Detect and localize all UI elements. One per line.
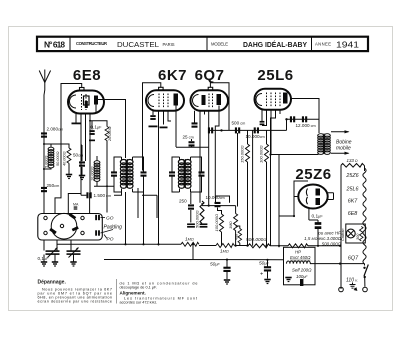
alignment text column [120,281,198,304]
wire: B+ line to output transformer [271,154,322,156]
chassis plate under diode load [200,223,208,227]
wire: 25L6 plate to output transformer [291,99,319,134]
svg-text:6Q7: 6Q7 [348,256,359,262]
capacitor 250cm on antenna lead [41,187,47,192]
diode detector line with caps 500cm [209,119,287,246]
main B- bus [57,244,315,246]
mains terminal left [339,287,344,292]
filter / speaker-field box [284,247,316,284]
svg-text:ANNEE: ANNEE [315,41,331,46]
resistor 1 Mohm (AF) [234,214,238,231]
AC plug symbol [350,283,357,291]
oscillator grid coil 10.000 [94,161,100,182]
svg-text:Cadran: Cadran [341,229,345,241]
svg-text:1MΩ: 1MΩ [228,221,233,229]
resistor 300 ohm (lamp shunt) [360,227,364,241]
text column divider [116,279,118,304]
capacitor across oscillator primary [111,171,117,176]
svg-text:écran desservie par une résist: écran desservie par une résistance [38,300,113,304]
gang wires and grounds [44,240,74,262]
ground below 50cm cap [79,176,85,180]
heater chain left wire [341,165,365,289]
triode-hexode tube 6E8 [68,88,104,114]
svg-text:500.000Ω: 500.000Ω [195,210,200,228]
svg-text:1941: 1941 [336,40,359,50]
svg-text:1,5 MΩ exc.3.000Ω: 1,5 MΩ exc.3.000Ω [304,236,341,241]
svg-text:Alignement.: Alignement. [120,291,146,296]
ground in filter box [285,278,291,282]
IF transformer MF1 [111,157,147,192]
resistor 100.000 ohm grid leak [220,214,224,232]
rectifier tube 25Z6 [298,185,327,209]
ground bar under 6E8 cathode [72,123,81,125]
capacitor 25cm feedback loop over MF2 [176,139,209,147]
svg-text:25L6: 25L6 [346,187,359,193]
capacitor 10.000cm (screen bypass) [254,127,259,133]
resistor 20.000 ohm (osc grid leak) [105,127,109,141]
band switch block [38,213,103,240]
svg-text:250: 250 [179,199,187,204]
svg-text:découplage de 0,1 μF.: découplage de 0,1 μF. [120,285,157,289]
trimmer PO with Padding label [95,230,100,235]
svg-text:Dépannage.: Dépannage. [38,280,67,286]
svg-text:0,1μF: 0,1μF [38,256,50,261]
wire: oscillator coil bottom rail [68,121,114,214]
wire: antenna lead down [43,83,46,214]
dial lamp Cadran [346,229,355,238]
wire 50cm cap [81,145,83,176]
wire: 6E8 plate to IF1 primary top [98,100,126,159]
resistor 1 Mohm on bus (second) [216,244,234,248]
6Q7 pins down [195,106,220,203]
resistor 50.000 ohm (antenna) [67,148,71,163]
6E8 pins down [76,105,107,162]
capacitor across oscillator secondary [141,171,147,176]
output transformer [318,134,330,155]
svg-text:100.000Ω: 100.000Ω [259,145,264,163]
svg-text:6E8: 6E8 [73,67,101,84]
svg-text:25Z6: 25Z6 [345,173,358,179]
antenna coil 5.000 [48,147,54,168]
svg-text:20.000Ω: 20.000Ω [108,126,112,142]
svg-text:mobile: mobile [336,146,351,152]
resistor 400 ohm (bias) [238,229,242,243]
svg-text:300: 300 [356,233,360,240]
svg-text:N° 618: N° 618 [44,39,65,49]
resistor 500.000 ohm (diode load) [200,201,204,224]
svg-text:10.000Ω: 10.000Ω [91,166,95,181]
antenna [39,70,50,83]
header title box [37,37,368,51]
svg-text:25Z6: 25Z6 [295,166,331,183]
ground bar under 6K7 [149,126,158,128]
svg-text:MA: MA [73,203,79,207]
tuning gang section 2 [67,248,81,258]
svg-text:CONSTRUCTEUR: CONSTRUCTEUR [76,41,107,46]
svg-text:ou avec HP: ou avec HP [318,231,341,236]
lower bus [104,244,365,265]
tuning gang section 1 [46,248,60,258]
25Z6 plate feed wires [279,155,309,248]
heater chain wavy cord [363,168,366,264]
wire antenna coil connections [43,144,69,175]
svg-text:6K7: 6K7 [348,199,359,205]
svg-text:150.000Ω: 150.000Ω [240,145,245,163]
ground below antenna resistor [66,175,72,179]
resistor 150.000 ohm (AVC divider) [247,130,249,144]
resistor 1 Mohm on bus [181,242,199,246]
svg-text:6Q7: 6Q7 [195,67,225,84]
capacitor on 6Q7 cathode [192,122,198,127]
wire: 6K7 grid-cap lead down to IF1 secondary [143,83,161,245]
svg-text:6K7: 6K7 [158,67,187,84]
capacitor pair 12.000cm (tone) [286,118,319,120]
svg-text:250cm: 250cm [47,183,60,188]
wires from oscillator transformer down to switch [114,188,157,244]
25L6 pins down [262,110,280,155]
resistor 100.000 ohm (screen feed) [266,130,268,144]
svg-text:6E8: 6E8 [348,211,358,217]
svg-text:400: 400 [234,234,238,240]
svg-text:25L6: 25L6 [257,67,293,84]
svg-text:12.000 cm: 12.000 cm [296,123,316,128]
capacitor 2.080cm on antenna lead [41,132,47,137]
6K7 pins down [153,106,176,246]
IF transformer MF2 [169,157,205,192]
svg-text:GO: GO [106,216,114,222]
wire: 6E8 grid-cap lead to antenna coil [55,84,82,214]
svg-text:133 Ω: 133 Ω [347,158,358,163]
svg-text:40.000Ω: 40.000Ω [63,151,67,166]
resistor 500.000 ohm on bus [248,244,270,248]
svg-text:100μF: 100μF [296,274,308,279]
capacitor 1.500cm (padder) [86,192,91,198]
volume potentiometer network [202,147,236,213]
svg-text:Exct 450Ω: Exct 450Ω [290,255,311,260]
svg-text:accordés sur 472 kHz.: accordés sur 472 kHz. [120,301,158,305]
svg-text:HP: HP [295,250,301,255]
svg-text:PO: PO [107,237,114,243]
dial lamp box [346,224,366,243]
svg-text:Self 200Ω: Self 200Ω [292,268,312,273]
svg-text:500 cm: 500 cm [232,121,246,126]
svg-text:500.000Ω: 500.000Ω [246,237,266,243]
svg-text:DUCASTEL: DUCASTEL [117,40,159,49]
svg-text:100.000Ω: 100.000Ω [214,214,219,232]
svg-text:50.000Ω: 50.000Ω [56,151,60,166]
resistor 1,5 Mohm on bus [288,244,308,248]
filter choke [287,261,311,264]
repair paragraph [38,287,113,303]
svg-text:+: + [260,272,263,278]
svg-text:25 cm: 25 cm [183,135,194,140]
svg-text:1.500 cm: 1.500 cm [94,193,112,198]
duo-diode-triode tube 6Q7 [191,87,229,111]
capacitor on 6K7 cathode [150,115,155,120]
svg-text:2.080cm: 2.080cm [47,127,64,132]
speaker voice-coil arrows [331,131,349,133]
small cathode cap of 25L6 [260,121,265,125]
chassis plate under 250cm [187,223,195,227]
svg-text:10.000cm: 10.000cm [246,134,265,139]
svg-text:PARIS: PARIS [163,42,175,47]
mains terminal right [363,287,368,292]
beam power tube 25L6 [255,89,292,110]
wire: 6Q7 grid-cap lead down to diode line [210,83,229,130]
svg-text:DAHG IDÉAL-BABY: DAHG IDÉAL-BABY [243,40,307,49]
svg-text:MODELE: MODELE [211,41,228,46]
trimmer GO [95,215,100,220]
pentode tube 6K7 [146,87,184,111]
svg-text:5.000Ω: 5.000Ω [45,155,49,168]
wire: AF coupling to output area [216,196,230,203]
mains switch [363,267,365,269]
